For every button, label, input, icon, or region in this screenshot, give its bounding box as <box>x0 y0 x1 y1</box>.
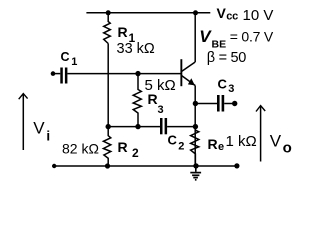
svg-text:R: R <box>208 136 218 152</box>
wire Vcc top rail <box>86 12 210 14</box>
capacitor C2 <box>160 118 167 134</box>
label R3 <box>148 91 164 116</box>
svg-text:C: C <box>61 50 70 64</box>
node ground junction <box>193 163 198 168</box>
node R3 bottom <box>135 124 140 129</box>
svg-text:C: C <box>218 77 228 92</box>
svg-text:o: o <box>283 139 292 156</box>
wire C3 left <box>195 103 217 105</box>
wire mid wire right <box>167 126 195 128</box>
node R3 top on base wire <box>135 71 140 76</box>
svg-text:V: V <box>217 5 227 21</box>
label VBE = 0.7 V <box>199 27 274 51</box>
label C2 <box>168 132 185 152</box>
svg-text:= 0.7 V: = 0.7 V <box>230 29 274 45</box>
svg-text:R: R <box>148 91 158 107</box>
svg-text:cc: cc <box>226 11 238 23</box>
svg-text:e: e <box>218 141 224 153</box>
svg-text:3: 3 <box>158 104 164 116</box>
label C3 <box>218 77 235 95</box>
svg-text:BE: BE <box>212 39 227 51</box>
node bottom left terminal <box>52 164 56 168</box>
svg-text:82 kΩ: 82 kΩ <box>62 141 99 157</box>
svg-text:V: V <box>33 119 45 138</box>
wire C3 right <box>224 103 235 105</box>
wire bottom rail <box>52 165 237 167</box>
wire R1 bottom to divider node <box>107 44 109 127</box>
node input terminal <box>51 71 56 76</box>
Vo arrow <box>256 106 265 162</box>
svg-text:V: V <box>270 132 282 151</box>
svg-text:i: i <box>46 129 50 144</box>
node C3 tap <box>193 101 198 106</box>
svg-text:3: 3 <box>228 83 234 95</box>
node collector top junction <box>193 10 198 15</box>
node divider junction <box>106 124 111 129</box>
svg-text:1: 1 <box>71 56 77 68</box>
Vi arrow <box>19 94 28 150</box>
transistor Q1 emitter diagonal <box>182 76 196 86</box>
transistor Q1 base bar <box>180 59 182 86</box>
svg-text:2: 2 <box>178 141 184 153</box>
svg-text:V: V <box>199 27 212 46</box>
capacitor C3 <box>217 95 224 112</box>
svg-text:R: R <box>118 24 128 40</box>
label R1 <box>118 24 136 45</box>
svg-text:2: 2 <box>132 146 139 160</box>
transistor Q1 emitter arrowhead <box>188 78 195 85</box>
svg-text:C: C <box>168 132 178 147</box>
svg-text:10 V: 10 V <box>243 7 274 24</box>
svg-text:β = 50: β = 50 <box>207 50 246 66</box>
resistor R1 <box>104 13 111 44</box>
wire mid wire left <box>108 126 160 128</box>
wire base wire <box>67 73 180 75</box>
node output terminal <box>232 101 237 106</box>
node emitter junction <box>193 124 198 129</box>
svg-text:1 kΩ: 1 kΩ <box>226 133 257 150</box>
resistor R3 <box>133 74 141 127</box>
wire collector <box>194 13 196 62</box>
node bottom right terminal <box>234 163 239 168</box>
label Vcc <box>217 5 274 24</box>
label R2 <box>118 139 140 160</box>
resistor Re <box>191 127 199 166</box>
wire input stub <box>53 73 60 75</box>
capacitor C1 <box>60 68 67 84</box>
label C1 <box>61 50 78 68</box>
node R1 top junction <box>106 10 111 15</box>
transistor Q1 collector diagonal <box>182 62 196 72</box>
label Vo <box>270 132 292 157</box>
ground <box>190 166 201 180</box>
svg-text:R: R <box>118 139 128 155</box>
resistor R2 <box>103 127 110 166</box>
wire emitter <box>194 86 196 167</box>
label Vi <box>33 119 50 144</box>
node R2 bottom junction <box>105 163 110 168</box>
svg-text:33 kΩ: 33 kΩ <box>117 41 155 57</box>
label Re <box>208 136 225 153</box>
